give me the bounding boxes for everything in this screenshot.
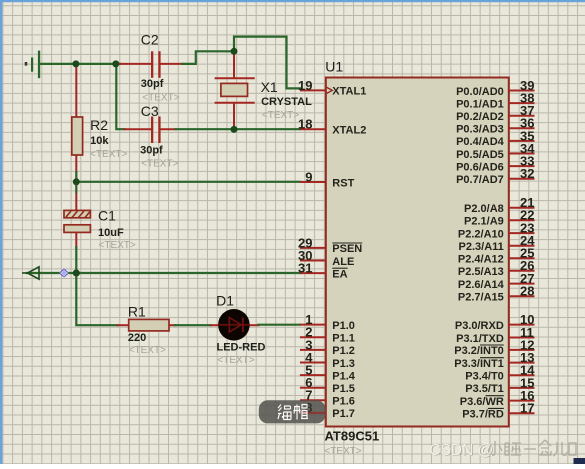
svg-text:30pf: 30pf <box>140 145 163 157</box>
svg-text:RST: RST <box>332 177 354 189</box>
svg-text:R1: R1 <box>128 304 146 320</box>
svg-text:C1: C1 <box>98 208 116 224</box>
svg-text:P1.4: P1.4 <box>332 370 356 382</box>
svg-text:P1.3: P1.3 <box>332 358 355 370</box>
svg-text:P3.5/T1: P3.5/T1 <box>465 383 504 395</box>
svg-text:220: 220 <box>128 332 146 344</box>
svg-text:P3.0/RXD: P3.0/RXD <box>455 320 504 332</box>
svg-text:P0.7/AD7: P0.7/AD7 <box>456 174 504 186</box>
svg-text:P0.2/AD2: P0.2/AD2 <box>456 111 504 123</box>
svg-text:XTAL1: XTAL1 <box>332 86 366 98</box>
svg-text:X1: X1 <box>261 79 278 95</box>
svg-text:<TEXT>: <TEXT> <box>142 93 179 104</box>
svg-text:<TEXT>: <TEXT> <box>262 110 299 121</box>
svg-text:P2.3/A11: P2.3/A11 <box>459 241 504 253</box>
svg-text:XTAL2: XTAL2 <box>332 125 366 137</box>
svg-text:P2.0/A8: P2.0/A8 <box>464 203 504 215</box>
svg-text:<TEXT>: <TEXT> <box>217 355 254 366</box>
svg-text:U1: U1 <box>325 59 343 75</box>
svg-text:<TEXT>: <TEXT> <box>141 158 178 169</box>
svg-text:P3.2/INT0: P3.2/INT0 <box>454 345 504 357</box>
svg-text:ALE: ALE <box>332 256 354 268</box>
svg-text:P0.0/AD0: P0.0/AD0 <box>456 86 504 98</box>
svg-text:R2: R2 <box>90 117 108 133</box>
svg-text:P1.6: P1.6 <box>332 396 355 408</box>
svg-text:28: 28 <box>520 284 534 299</box>
svg-text:<TEXT>: <TEXT> <box>90 149 127 160</box>
svg-text:19: 19 <box>298 78 312 93</box>
svg-text:AT89C51: AT89C51 <box>325 429 380 444</box>
svg-text:<TEXT>: <TEXT> <box>324 446 361 457</box>
svg-text:<TEXT>: <TEXT> <box>129 345 166 356</box>
svg-text:C2: C2 <box>141 32 159 48</box>
svg-text:9: 9 <box>305 169 312 184</box>
svg-text:P2.4/A12: P2.4/A12 <box>458 254 504 266</box>
svg-text:P1.5: P1.5 <box>332 383 355 395</box>
svg-text:C3: C3 <box>141 103 159 119</box>
svg-text:P0.6/AD6: P0.6/AD6 <box>456 161 504 173</box>
svg-text:10uF: 10uF <box>98 227 124 239</box>
svg-text:P2.5/A13: P2.5/A13 <box>458 266 504 278</box>
svg-text:18: 18 <box>298 117 312 132</box>
svg-text:P3.3/INT1: P3.3/INT1 <box>454 358 504 370</box>
svg-text:P0.1/AD1: P0.1/AD1 <box>456 98 504 110</box>
svg-text:EA: EA <box>332 268 347 280</box>
svg-text:P1.2: P1.2 <box>332 345 355 357</box>
svg-text:P2.7/A15: P2.7/A15 <box>458 292 504 304</box>
svg-text:P3.1/TXD: P3.1/TXD <box>456 333 504 345</box>
svg-text:CRYSTAL: CRYSTAL <box>261 96 312 108</box>
svg-text:P1.0: P1.0 <box>332 320 355 332</box>
svg-text:31: 31 <box>298 261 312 276</box>
svg-text:17: 17 <box>520 401 534 416</box>
svg-text:LED-RED: LED-RED <box>217 342 266 354</box>
svg-text:30pf: 30pf <box>141 78 164 90</box>
svg-text:P2.6/A14: P2.6/A14 <box>458 279 505 291</box>
svg-text:P0.4/AD4: P0.4/AD4 <box>456 136 505 148</box>
svg-text:P1.7: P1.7 <box>332 408 355 420</box>
svg-text:P0.3/AD3: P0.3/AD3 <box>456 124 504 136</box>
svg-text:P1.1: P1.1 <box>332 333 355 345</box>
svg-text:PSEN: PSEN <box>332 243 362 255</box>
svg-text:32: 32 <box>520 166 534 181</box>
svg-text:D1: D1 <box>216 293 234 309</box>
svg-text:P3.4/T0: P3.4/T0 <box>465 371 504 383</box>
svg-text:P2.2/A10: P2.2/A10 <box>458 228 504 240</box>
svg-text:P0.5/AD5: P0.5/AD5 <box>456 149 504 161</box>
svg-text:<TEXT>: <TEXT> <box>99 240 136 251</box>
svg-text:CSDN @: CSDN @ <box>429 442 493 459</box>
svg-text:P2.1/A9: P2.1/A9 <box>464 216 504 228</box>
svg-text:10k: 10k <box>90 135 109 147</box>
svg-text:P3.7/RD: P3.7/RD <box>462 409 504 421</box>
svg-text:P3.6/WR: P3.6/WR <box>460 396 504 408</box>
